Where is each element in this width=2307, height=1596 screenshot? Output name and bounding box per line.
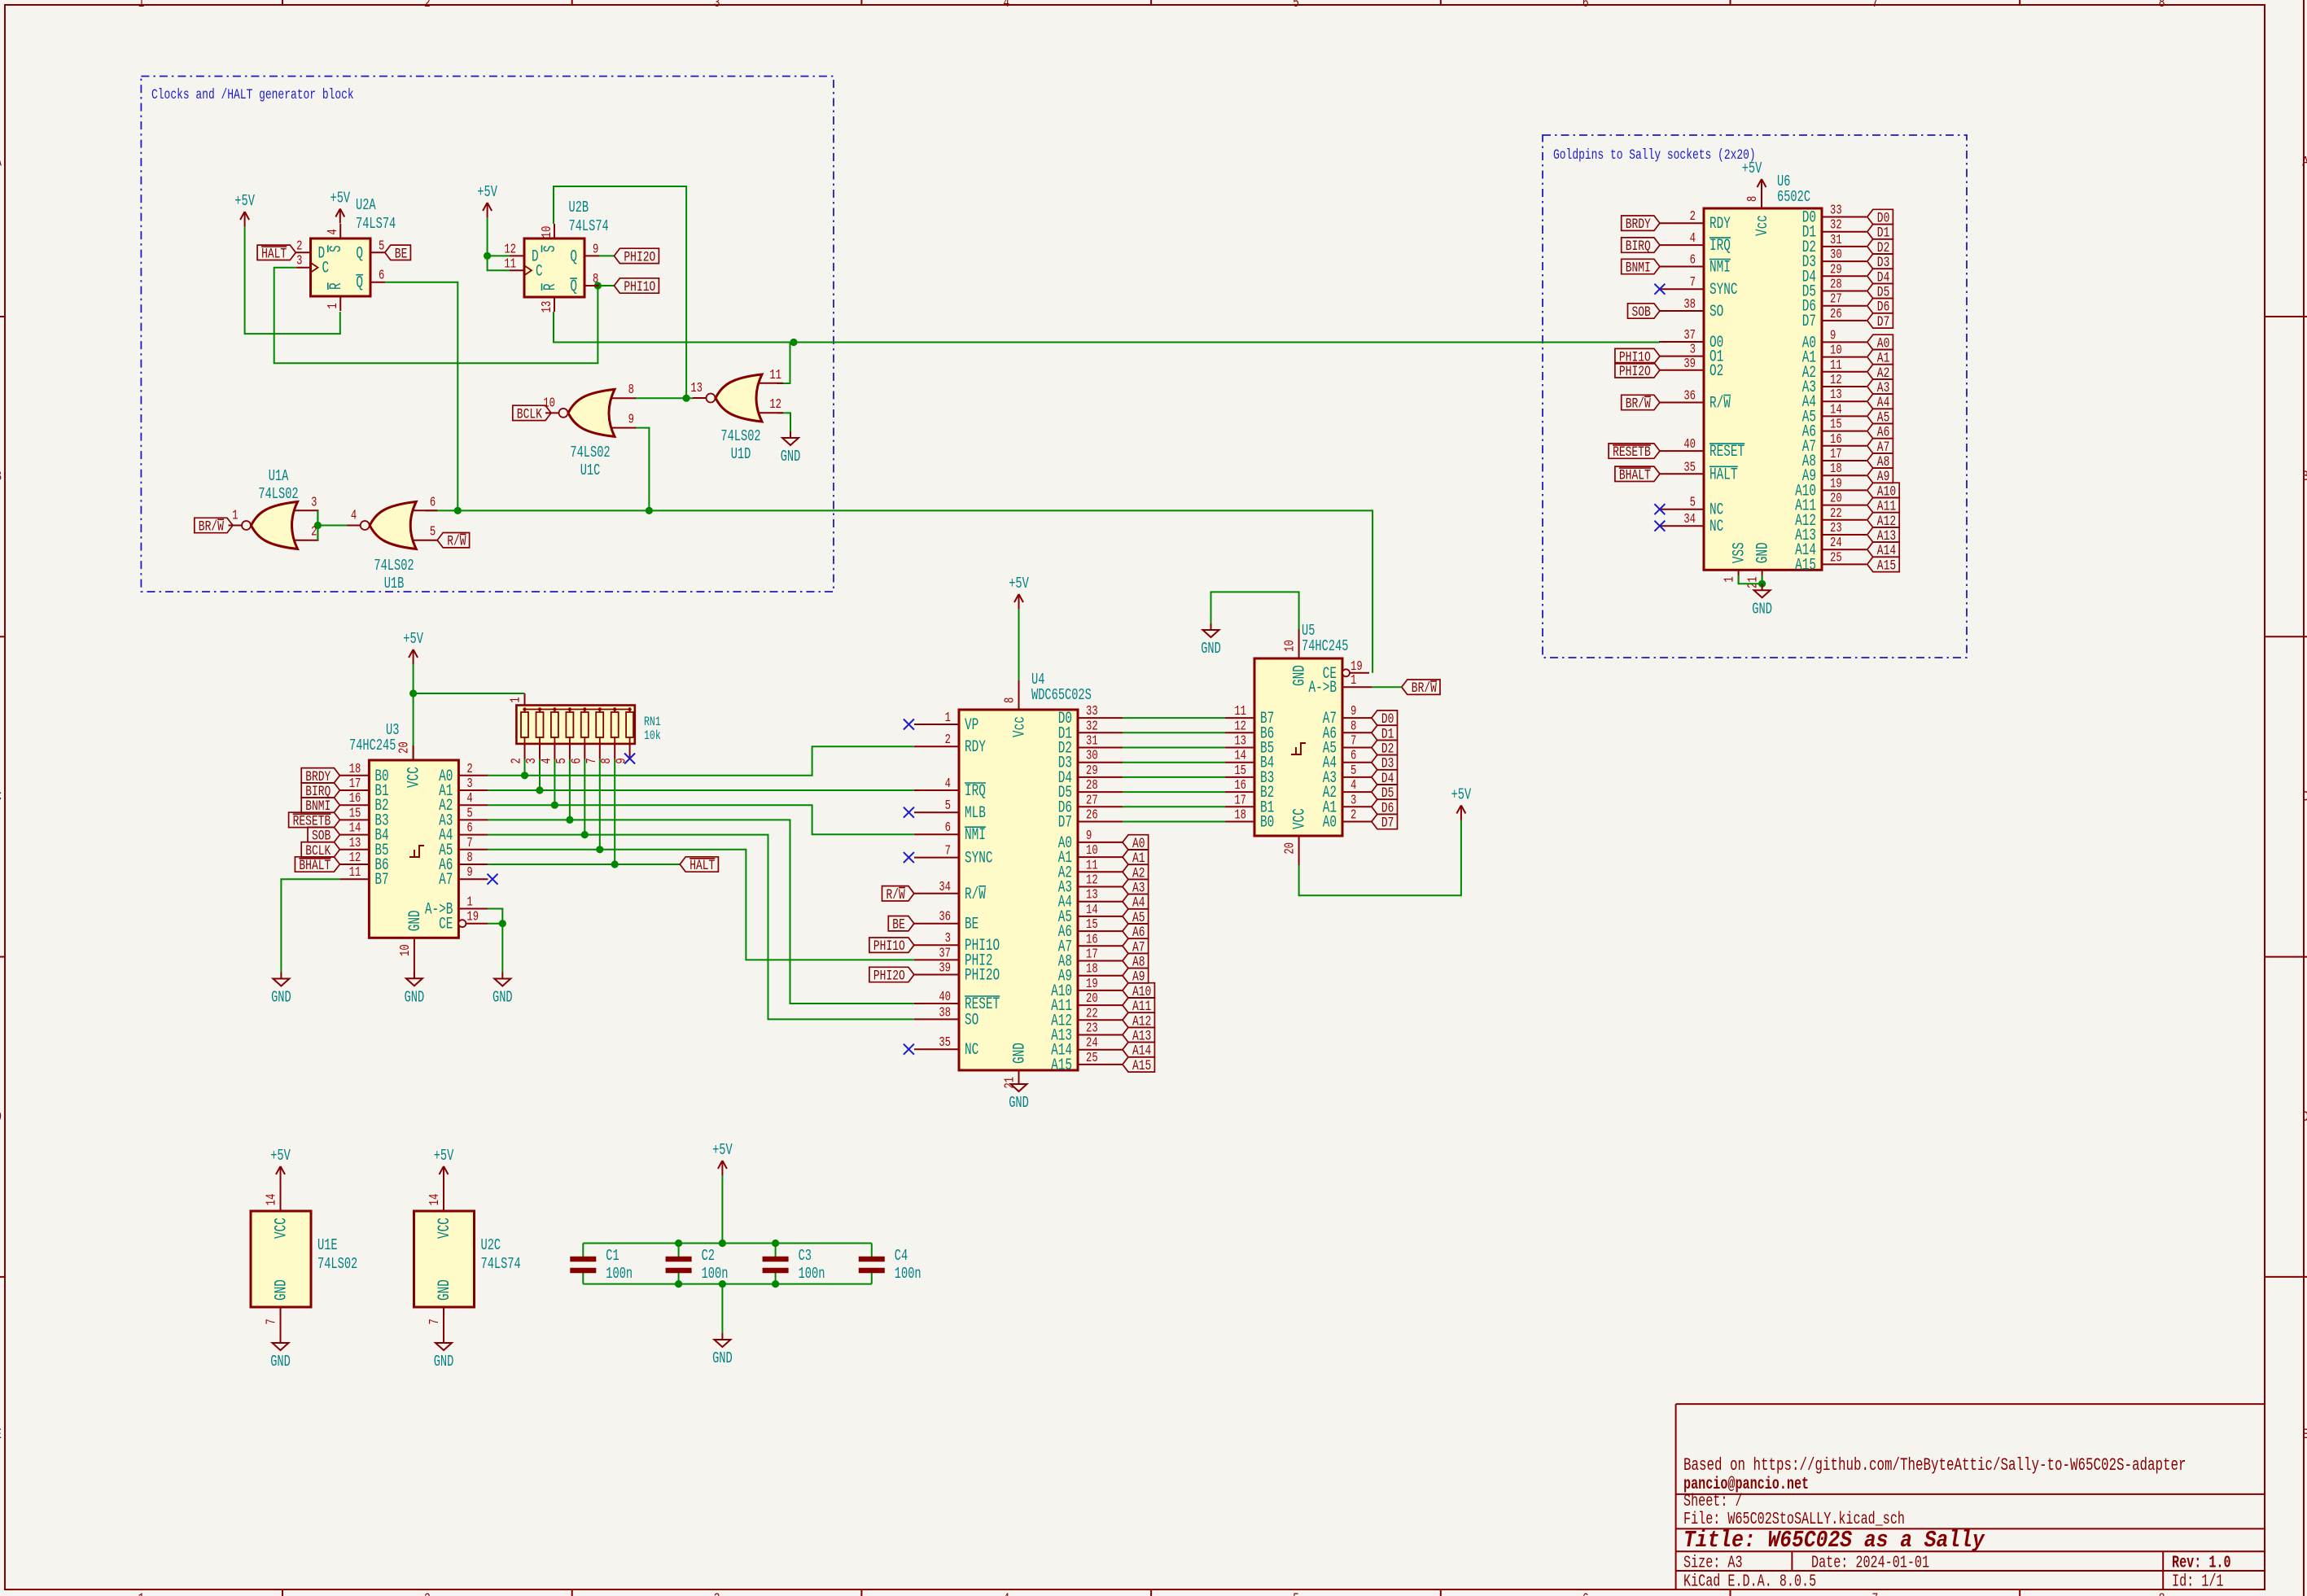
global label BE	[385, 245, 411, 262]
global label BIRQ at U3	[301, 783, 339, 800]
global label SOB at U3	[308, 827, 339, 844]
svg-text:11: 11	[1830, 358, 1842, 373]
power +5V	[234, 192, 255, 226]
junction	[521, 772, 528, 779]
global label label D0 at U5	[1372, 711, 1398, 728]
svg-text:A15: A15	[1877, 557, 1896, 574]
svg-text:BIRQ: BIRQ	[1626, 238, 1651, 255]
global label label D3 at U5	[1372, 755, 1398, 772]
svg-text:Size: A3: Size: A3	[1683, 1554, 1743, 1572]
svg-text:HALT: HALT	[689, 857, 715, 874]
wire U3 B7 to GND	[281, 879, 339, 972]
svg-text:GND: GND	[1754, 542, 1773, 563]
svg-text:5: 5	[945, 799, 951, 814]
global label BCLK at U1C	[513, 405, 551, 422]
svg-text:GND: GND	[271, 988, 291, 1006]
svg-text:PHI1O: PHI1O	[624, 278, 655, 295]
global label BR/W at U6	[1622, 395, 1660, 412]
svg-text:11: 11	[1086, 859, 1098, 873]
svg-text:11: 11	[1234, 704, 1246, 719]
svg-text:Q: Q	[570, 247, 577, 266]
junction	[719, 1240, 726, 1247]
svg-text:7: 7	[1872, 0, 1879, 11]
svg-text:28: 28	[1830, 278, 1842, 292]
global label SOB at U6	[1628, 304, 1660, 321]
global label label A6 at U6	[1867, 423, 1893, 440]
svg-text:13: 13	[1234, 734, 1246, 749]
svg-text:VCC: VCC	[405, 767, 424, 788]
svg-text:3: 3	[714, 1590, 720, 1596]
svg-text:MLB: MLB	[965, 804, 986, 823]
wire U1C pin9 down to RW net	[634, 428, 649, 511]
svg-text:14: 14	[1234, 749, 1246, 763]
global label PHI2O at U6	[1615, 363, 1660, 380]
svg-text:1: 1	[509, 697, 523, 702]
junction	[454, 507, 462, 514]
svg-text:9: 9	[1830, 329, 1836, 343]
svg-text:5: 5	[430, 525, 436, 540]
svg-text:7: 7	[584, 758, 599, 763]
global label label A4 at U6	[1867, 394, 1893, 411]
svg-text:5: 5	[1293, 1590, 1299, 1596]
global label label D4 at U6	[1867, 269, 1893, 286]
svg-text:U2B: U2B	[569, 199, 589, 216]
svg-text:5: 5	[1350, 763, 1356, 778]
svg-text:3: 3	[945, 932, 951, 947]
svg-text:12: 12	[1086, 873, 1098, 888]
wire cap top rail	[583, 1243, 872, 1244]
wire A3 net U3 to U4 RESET	[488, 820, 914, 1004]
svg-text:17: 17	[1830, 447, 1842, 461]
svg-text:12: 12	[1234, 719, 1246, 734]
svg-text:18: 18	[1086, 962, 1098, 977]
wire U2B pin12/11 tie to +5V	[488, 217, 510, 270]
svg-text:5: 5	[466, 807, 472, 821]
global label label A7 at U4	[1123, 938, 1149, 955]
junction	[484, 252, 491, 260]
no-connect X	[904, 807, 914, 818]
svg-text:3: 3	[296, 254, 302, 269]
global label BR/W at U1A	[195, 518, 233, 535]
svg-text:pancio@pancio.net: pancio@pancio.net	[1683, 1476, 1809, 1494]
svg-text:HALT: HALT	[1709, 466, 1738, 484]
global label label D6 at U5	[1372, 799, 1398, 816]
svg-text:4: 4	[466, 792, 472, 807]
svg-text:12: 12	[769, 398, 781, 413]
svg-text:SO: SO	[965, 1011, 978, 1030]
wire RN1 pin8 to A6 row	[614, 759, 615, 864]
title block	[1676, 1404, 2265, 1591]
global label label A3 at U4	[1123, 879, 1149, 896]
svg-text:PHI1O: PHI1O	[873, 938, 905, 955]
svg-text:RESET: RESET	[1709, 443, 1744, 461]
global label RESETB at U3	[289, 812, 340, 829]
svg-text:10: 10	[398, 944, 413, 956]
global label PHI2O out	[614, 248, 659, 265]
wire D6 U4 to U5	[1123, 806, 1226, 807]
wire D5 U4 to U5	[1123, 791, 1226, 793]
svg-text:35: 35	[939, 1036, 951, 1051]
svg-text:Vcc: Vcc	[1753, 215, 1772, 236]
svg-text:E: E	[2302, 1426, 2307, 1443]
svg-text:2: 2	[311, 525, 317, 540]
power +5V	[270, 1147, 291, 1181]
svg-text:31: 31	[1830, 233, 1842, 247]
ground	[1752, 584, 1772, 618]
svg-text:GND: GND	[434, 1353, 454, 1371]
svg-text:14: 14	[349, 821, 361, 836]
wire A4 net U3 to U4 SO	[488, 835, 914, 1020]
svg-text:25: 25	[1086, 1051, 1098, 1065]
svg-text:GND: GND	[1010, 1043, 1029, 1064]
global label label A8 at U6	[1867, 453, 1893, 470]
svg-text:100n: 100n	[702, 1265, 729, 1283]
svg-text:HALT: HALT	[261, 245, 287, 262]
junction	[314, 522, 322, 529]
svg-text:36: 36	[1683, 389, 1696, 404]
svg-text:3: 3	[1690, 343, 1696, 357]
svg-text:D: D	[2302, 1108, 2307, 1126]
global label label A3 at U6	[1867, 379, 1893, 396]
svg-text:22: 22	[1830, 506, 1842, 521]
svg-text:8: 8	[2159, 0, 2165, 11]
svg-text:8: 8	[628, 383, 634, 398]
NOR gate U1A 74LS02	[229, 467, 319, 549]
global label label A13 at U4	[1123, 1027, 1154, 1044]
global label BHALT at U3	[295, 857, 339, 874]
svg-text:38: 38	[1683, 297, 1696, 312]
capacitor C4 100n	[859, 1244, 921, 1284]
ground	[270, 1336, 291, 1371]
svg-text:WDC65C02S: WDC65C02S	[1031, 686, 1092, 704]
global label label D1 at U6	[1867, 225, 1893, 242]
svg-text:Goldpins to Sally sockets (2x2: Goldpins to Sally sockets (2x20)	[1553, 146, 1756, 164]
svg-text:17: 17	[1234, 794, 1246, 808]
global label label A7 at U6	[1867, 439, 1893, 456]
svg-text:3: 3	[1350, 794, 1356, 808]
no-connect X	[904, 1044, 914, 1055]
junction	[675, 1280, 682, 1288]
global label R/W out	[437, 533, 469, 550]
svg-text:GND: GND	[492, 988, 513, 1006]
wire +5V branch to RN1	[414, 693, 525, 694]
global label label A2 at U6	[1867, 365, 1893, 382]
svg-text:BE: BE	[395, 245, 408, 262]
ground	[405, 972, 425, 1006]
svg-text:6: 6	[1583, 1590, 1589, 1596]
wire RN1 pin2 to A0 row	[524, 759, 526, 776]
svg-text:+5V: +5V	[1009, 575, 1029, 592]
svg-text:8: 8	[2159, 1590, 2165, 1596]
wire D0 U4 to U5	[1123, 717, 1226, 719]
svg-text:A15: A15	[1795, 556, 1816, 575]
wire A6 net U3 to HALT label	[488, 864, 680, 865]
power +5V	[1009, 575, 1029, 609]
wire D2 U4 to U5	[1123, 747, 1226, 749]
global label label A9 at U4	[1123, 969, 1149, 986]
svg-text:29: 29	[1830, 263, 1842, 278]
IC U4 WDC65C02S	[914, 671, 1123, 1089]
junction	[566, 816, 573, 824]
svg-text:+5V: +5V	[1451, 785, 1472, 803]
svg-text:5: 5	[554, 758, 569, 763]
global label label A6 at U4	[1123, 924, 1149, 941]
svg-text:A15: A15	[1051, 1056, 1072, 1075]
svg-text:4: 4	[540, 758, 554, 763]
svg-text:9: 9	[466, 866, 472, 881]
svg-text:+5V: +5V	[403, 630, 423, 648]
svg-text:34: 34	[1683, 513, 1696, 527]
svg-text:C4: C4	[895, 1247, 908, 1265]
svg-text:B7: B7	[374, 871, 388, 890]
svg-text:4: 4	[1003, 1590, 1009, 1596]
svg-text:8: 8	[1003, 697, 1018, 703]
global label label A11 at U4	[1123, 998, 1154, 1015]
svg-text:Q: Q	[356, 274, 363, 293]
svg-text:39: 39	[939, 961, 951, 976]
global label label A4 at U4	[1123, 894, 1149, 912]
svg-text:Vcc: Vcc	[1010, 716, 1029, 737]
global label BNMI at U6	[1622, 259, 1660, 276]
svg-text:Title: W65C02S as a Sally: Title: W65C02S as a Sally	[1683, 1528, 1985, 1554]
power unit U2C 74LS74	[414, 1181, 521, 1336]
svg-text:34: 34	[939, 880, 951, 894]
global label BRDY at U6	[1622, 216, 1660, 233]
global label BNMI at U3	[301, 798, 339, 815]
svg-text:Id: 1/1: Id: 1/1	[2172, 1572, 2223, 1591]
svg-text:36: 36	[939, 910, 951, 925]
svg-text:20: 20	[397, 741, 412, 754]
wire cap rail to GND	[721, 1284, 723, 1333]
svg-text:37: 37	[1683, 328, 1696, 343]
svg-text:SO: SO	[1709, 303, 1723, 321]
svg-text:20: 20	[1830, 492, 1842, 506]
wire U3 A->B + CE to GND	[488, 909, 502, 973]
wire RN1 pin7 to A5 row	[599, 759, 601, 850]
svg-text:R: R	[327, 282, 346, 290]
svg-text:C: C	[2302, 788, 2307, 805]
svg-text:4: 4	[945, 776, 951, 791]
flip-flop U2B 74LS74	[504, 199, 608, 313]
svg-text:E: E	[0, 1426, 2, 1443]
power +5V	[403, 630, 423, 664]
wire RW long wire U1B pin6 to U5 CE	[426, 510, 1372, 672]
svg-text:Q: Q	[570, 278, 577, 296]
global label label A10 at U4	[1123, 983, 1154, 1000]
junction	[683, 395, 690, 402]
svg-text:1: 1	[945, 711, 951, 725]
svg-text:7: 7	[1690, 276, 1696, 291]
svg-text:GND: GND	[712, 1349, 733, 1367]
svg-text:3: 3	[714, 0, 720, 11]
svg-text:Based on https://github.com/Th: Based on https://github.com/TheByteAttic…	[1683, 1455, 2186, 1476]
svg-text:BR/W: BR/W	[1412, 680, 1438, 697]
wire A0 net U3 to U4 RDY	[488, 746, 914, 776]
svg-text:S: S	[327, 245, 346, 252]
global label BRDY at U3	[301, 768, 339, 785]
svg-text:24: 24	[1086, 1036, 1098, 1051]
wire +5V to cap rail	[721, 1175, 723, 1244]
svg-text:BR/W: BR/W	[1626, 396, 1652, 413]
svg-text:33: 33	[1830, 203, 1842, 218]
global label label A14 at U6	[1867, 542, 1899, 559]
svg-text:6: 6	[430, 496, 436, 510]
svg-text:26: 26	[1830, 307, 1842, 321]
svg-text:74LS02: 74LS02	[317, 1255, 357, 1273]
capacitor C2 100n	[666, 1244, 729, 1284]
svg-text:+5V: +5V	[234, 192, 255, 210]
global label label D5 at U5	[1372, 785, 1398, 802]
svg-text:100n: 100n	[895, 1265, 921, 1283]
svg-text:2: 2	[945, 733, 951, 748]
svg-text:30: 30	[1086, 749, 1098, 763]
svg-text:8: 8	[1350, 719, 1356, 734]
svg-text:7: 7	[427, 1318, 442, 1324]
svg-text:14: 14	[427, 1194, 442, 1206]
power +5V	[330, 189, 350, 223]
wire U1C pin8 to U1D pin13	[634, 397, 694, 399]
svg-text:PHI2O: PHI2O	[873, 968, 905, 985]
svg-text:2: 2	[424, 0, 431, 11]
svg-text:2: 2	[466, 762, 472, 776]
wire U2B pin10 S to O0 net	[554, 186, 686, 398]
svg-text:GND: GND	[436, 1279, 454, 1301]
svg-text:3: 3	[524, 758, 539, 763]
global label label D7 at U6	[1867, 313, 1893, 330]
svg-text:R/W: R/W	[1709, 394, 1731, 413]
svg-text:SYNC: SYNC	[1709, 281, 1738, 300]
svg-text:1: 1	[232, 509, 238, 523]
global label R/W at U4	[882, 886, 914, 903]
svg-text:13: 13	[1086, 888, 1098, 903]
svg-text:BCLK: BCLK	[517, 405, 543, 422]
power +5V	[1451, 785, 1472, 820]
svg-text:RESETB: RESETB	[1613, 444, 1651, 461]
svg-text:14: 14	[1830, 403, 1842, 418]
wire RN1 pin4 to A2 row	[554, 759, 555, 805]
svg-text:GND: GND	[272, 1279, 291, 1301]
svg-text:B: B	[2302, 468, 2307, 485]
svg-text:NMI: NMI	[965, 826, 986, 845]
global label RESETB at U6	[1609, 444, 1660, 461]
svg-text:1: 1	[466, 895, 472, 910]
svg-text:PHI2O: PHI2O	[624, 248, 655, 265]
svg-text:16: 16	[1086, 933, 1098, 947]
svg-text:BNMI: BNMI	[1626, 260, 1651, 277]
svg-text:6: 6	[570, 758, 584, 763]
svg-text:VCC: VCC	[272, 1218, 291, 1239]
svg-text:B0: B0	[1260, 813, 1274, 832]
svg-text:GND: GND	[1201, 640, 1221, 658]
svg-text:74HC245: 74HC245	[1302, 637, 1348, 655]
svg-text:U1B: U1B	[384, 575, 405, 592]
power +5V	[477, 183, 497, 217]
svg-text:GND: GND	[405, 988, 425, 1006]
svg-text:23: 23	[1086, 1021, 1098, 1036]
svg-text:BHALT: BHALT	[299, 857, 331, 874]
svg-text:2: 2	[1350, 808, 1356, 823]
svg-text:5: 5	[1690, 496, 1696, 510]
global label PHI2O at U4	[869, 967, 914, 984]
svg-text:U1A: U1A	[269, 467, 289, 485]
svg-text:74HC245: 74HC245	[349, 737, 396, 754]
svg-text:U1E: U1E	[317, 1236, 338, 1254]
svg-text:Clocks and /HALT generator blo: Clocks and /HALT generator block	[151, 86, 354, 103]
svg-text:27: 27	[1830, 292, 1842, 307]
svg-text:74LS02: 74LS02	[570, 444, 610, 461]
svg-text:19: 19	[1830, 477, 1842, 492]
global label label A1 at U6	[1867, 349, 1893, 366]
svg-text:29: 29	[1086, 763, 1098, 778]
svg-text:12: 12	[349, 850, 361, 865]
svg-text:35: 35	[1683, 461, 1696, 475]
svg-text:5: 5	[1293, 0, 1299, 11]
svg-text:R/W: R/W	[447, 533, 466, 550]
wire RN1 pin6 to A4 row	[584, 759, 585, 835]
wire +5V to U3 VCC and RN1 pin1	[413, 664, 414, 746]
svg-text:16: 16	[1830, 432, 1842, 447]
global label label D2 at U5	[1372, 740, 1398, 757]
ref U3	[349, 721, 399, 754]
global label label A5 at U4	[1123, 909, 1149, 926]
svg-text:20: 20	[1086, 991, 1098, 1006]
svg-text:4: 4	[1350, 778, 1356, 793]
svg-text:10: 10	[1086, 843, 1098, 858]
no-connect X	[904, 719, 914, 730]
svg-text:1: 1	[1723, 576, 1737, 582]
svg-text:GND: GND	[1752, 600, 1772, 618]
svg-text:11: 11	[769, 368, 781, 383]
svg-text:VSS: VSS	[1731, 542, 1749, 563]
svg-text:12: 12	[1830, 373, 1842, 387]
note box: Goldpins to Sally sockets (2x20)	[1543, 135, 1967, 658]
svg-text:GND: GND	[270, 1353, 291, 1371]
svg-text:22: 22	[1086, 1007, 1098, 1021]
svg-text:10: 10	[1283, 640, 1298, 652]
global label label D3 at U6	[1867, 254, 1893, 271]
svg-text:7: 7	[265, 1318, 279, 1324]
svg-text:PHI2O: PHI2O	[1619, 363, 1651, 380]
svg-text:8: 8	[593, 272, 598, 286]
svg-text:Date: 2024-01-01: Date: 2024-01-01	[1811, 1554, 1929, 1572]
svg-text:7: 7	[466, 836, 472, 850]
global label BE at U4	[888, 916, 914, 934]
svg-text:40: 40	[939, 990, 951, 1004]
svg-text:30: 30	[1830, 247, 1842, 262]
svg-text:7: 7	[1350, 734, 1356, 749]
svg-text:19: 19	[1086, 977, 1098, 991]
svg-text:A0: A0	[1323, 813, 1337, 832]
svg-text:74LS02: 74LS02	[720, 427, 760, 445]
wire U2A pin3 C from PHI1O net	[274, 268, 598, 364]
svg-text:+5V: +5V	[1742, 160, 1762, 177]
svg-text:6: 6	[945, 821, 951, 836]
global label label D0 at U6	[1867, 209, 1893, 226]
svg-text:C: C	[322, 260, 330, 278]
svg-text:74LS74: 74LS74	[481, 1255, 521, 1273]
svg-text:20: 20	[1283, 842, 1298, 855]
global label PHI1O out	[614, 278, 659, 295]
no-connect X	[1654, 284, 1665, 295]
svg-text:40: 40	[1683, 437, 1696, 452]
wire U2B pin8 Qbar to PHI1O label	[599, 285, 614, 286]
svg-text:BR/W: BR/W	[199, 518, 225, 536]
svg-text:8: 8	[600, 758, 615, 763]
svg-text:CE: CE	[439, 916, 453, 934]
wire D3 U4 to U5	[1123, 762, 1226, 763]
svg-text:5: 5	[379, 239, 384, 254]
svg-text:2: 2	[296, 239, 302, 254]
